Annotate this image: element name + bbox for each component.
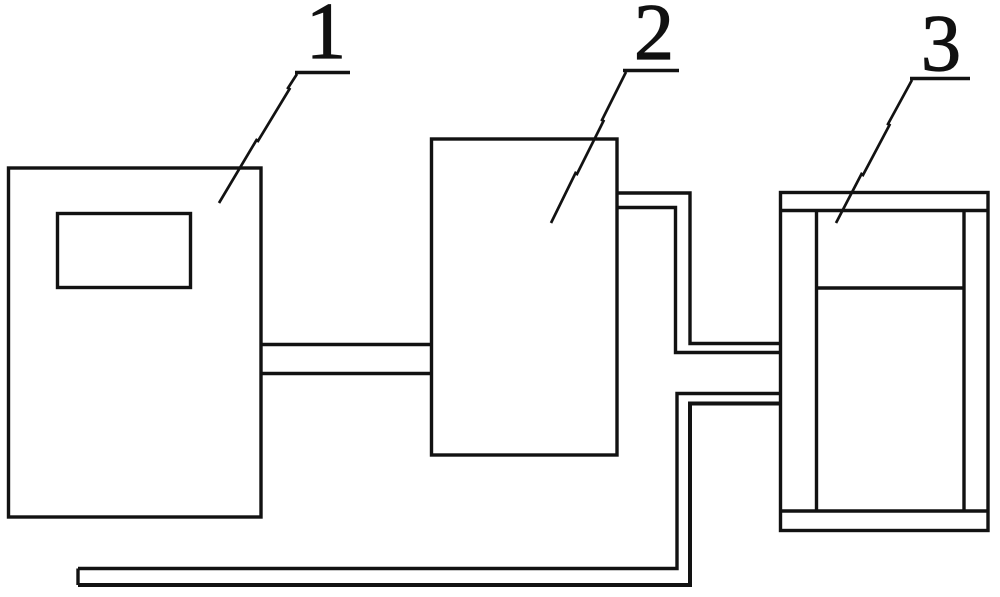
box 3 inner vessel left wall: [815, 211, 818, 512]
leader line 2: [551, 72, 626, 223]
pipe box2-box3 outer polyline: [616, 193, 780, 344]
svg-text:3: 3: [921, 0, 961, 88]
label 1 underline: [295, 71, 350, 75]
label 2 underline: [623, 69, 679, 73]
box 3 inner top line: [781, 209, 989, 212]
svg-text:2: 2: [634, 0, 674, 77]
box 2 (unit 2 housing): [432, 139, 618, 455]
label 3 underline: [910, 77, 970, 81]
svg-text:1: 1: [306, 0, 346, 76]
box 1 (unit 1 housing): [9, 168, 262, 517]
pipe box1-box2 upper line: [260, 343, 432, 346]
bottom drain pipe left end cap: [76, 569, 79, 586]
leader line 1: [219, 74, 297, 203]
display window on box 1: [58, 214, 191, 288]
bottom drain pipe outer polyline (long run, riser, into box 3): [78, 394, 780, 569]
leader line 3: [836, 80, 912, 223]
pipe box2-box3 inner polyline: [616, 208, 780, 353]
box 3 inner bottom line: [781, 509, 989, 512]
box 3 inner vessel right wall: [962, 211, 965, 512]
bottom drain pipe inner polyline: [78, 404, 780, 586]
box 3 liquid level line: [817, 286, 965, 289]
box 3 outer shell: [781, 193, 989, 531]
pipe box1-box2 lower line: [260, 372, 432, 375]
